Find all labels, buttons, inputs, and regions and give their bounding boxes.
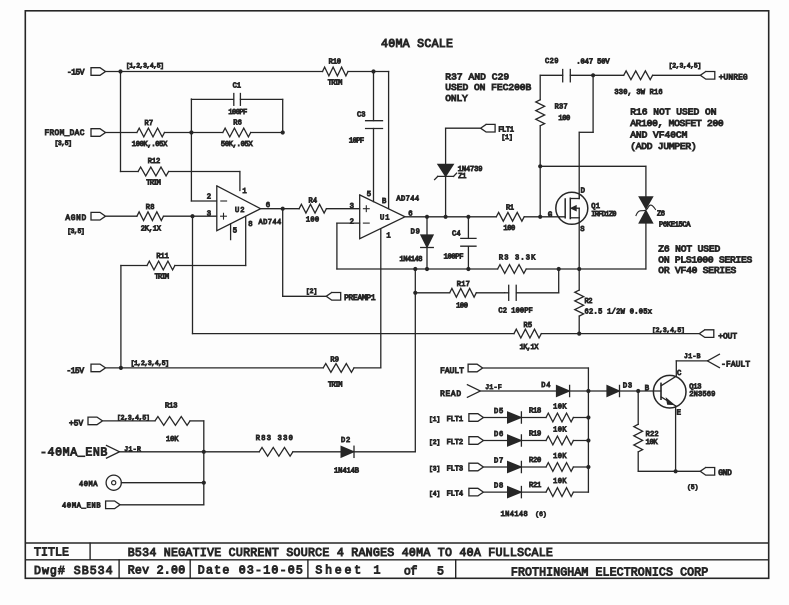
svg-text:S: S <box>580 226 584 234</box>
svg-text:8: 8 <box>248 221 252 229</box>
svg-text:100: 100 <box>558 115 570 123</box>
svg-text:10K: 10K <box>553 404 567 412</box>
svg-text:D9: D9 <box>411 229 420 237</box>
svg-text:R8: R8 <box>146 204 155 212</box>
svg-text:OR VF40 SERIES: OR VF40 SERIES <box>658 265 736 276</box>
svg-text:C2 100PF: C2 100PF <box>498 308 532 316</box>
svg-text:100: 100 <box>503 225 515 233</box>
svg-text:[2,3,4,5]: [2,3,4,5] <box>117 415 150 422</box>
svg-text:Z1: Z1 <box>458 173 466 181</box>
svg-text:FAULT: FAULT <box>440 368 464 376</box>
svg-text:AND VF40CM: AND VF40CM <box>630 130 687 141</box>
svg-text:Rev 2.00: Rev 2.00 <box>128 564 186 577</box>
svg-text:1N4148: 1N4148 <box>400 256 423 264</box>
svg-text:Dwg# SB534: Dwg# SB534 <box>34 565 113 578</box>
svg-text:R16 NOT USED ON: R16 NOT USED ON <box>630 106 716 117</box>
svg-text:6: 6 <box>266 202 270 210</box>
svg-text:D8: D8 <box>494 483 503 491</box>
svg-text:U2: U2 <box>235 207 245 215</box>
svg-text:FLT3: FLT3 <box>447 466 464 474</box>
svg-text:+5V: +5V <box>69 421 84 429</box>
svg-text:B: B <box>645 385 650 393</box>
svg-text:Z6 NOT USED: Z6 NOT USED <box>658 244 720 255</box>
svg-text:[3,5]: [3,5] <box>67 228 85 235</box>
svg-text:P6KE15CA: P6KE15CA <box>659 221 691 229</box>
svg-text:-15V: -15V <box>67 70 85 78</box>
svg-text:[3,5]: [3,5] <box>55 140 73 147</box>
svg-text:2K,1X: 2K,1X <box>141 226 162 234</box>
svg-text:FLT2: FLT2 <box>447 439 464 447</box>
svg-text:5: 5 <box>367 191 371 199</box>
svg-text:C3: C3 <box>357 112 365 120</box>
svg-text:R2: R2 <box>585 298 593 306</box>
svg-text:10K: 10K <box>553 478 567 486</box>
svg-text:READ: READ <box>440 391 461 399</box>
svg-text:R21: R21 <box>529 482 541 490</box>
svg-text:10PF: 10PF <box>349 137 364 145</box>
svg-text:J1-R: J1-R <box>124 446 141 453</box>
svg-text:TRIM: TRIM <box>155 274 170 282</box>
svg-text:R20: R20 <box>529 457 541 465</box>
svg-text:R11: R11 <box>156 253 168 261</box>
svg-text:1N4148: 1N4148 <box>501 511 528 519</box>
svg-text:Sheet 1: Sheet 1 <box>315 564 380 577</box>
svg-text:R7: R7 <box>145 120 154 128</box>
svg-text:100PF: 100PF <box>444 254 464 262</box>
svg-text:[1,2,3,4,5]: [1,2,3,4,5] <box>131 360 170 367</box>
svg-text:ON PLS1000 SERIES: ON PLS1000 SERIES <box>658 254 752 265</box>
svg-text:5: 5 <box>437 565 444 578</box>
svg-text:TRIM: TRIM <box>328 382 343 390</box>
svg-text:D7: D7 <box>494 458 503 466</box>
svg-text:R12: R12 <box>148 158 160 166</box>
svg-text:FROM_DAC: FROM_DAC <box>45 130 85 138</box>
svg-text:-40MA_ENB: -40MA_ENB <box>40 447 107 460</box>
svg-text:[4]: [4] <box>429 491 440 498</box>
svg-text:3: 3 <box>350 203 354 211</box>
svg-text:40MA: 40MA <box>79 481 98 489</box>
svg-text:[1]: [1] <box>429 416 440 423</box>
svg-text:B534 NEGATIVE CURRENT SOURCE: B534 NEGATIVE CURRENT SOURCE 4 RANGES 40… <box>128 547 553 560</box>
svg-text:R3 3.3K: R3 3.3K <box>499 255 536 263</box>
svg-text:TITLE: TITLE <box>34 547 69 560</box>
svg-text:40MA SCALE: 40MA SCALE <box>381 38 453 51</box>
svg-text:ONLY: ONLY <box>445 93 468 104</box>
svg-text:B: B <box>382 198 387 206</box>
svg-text:R37 AND C29: R37 AND C29 <box>445 71 509 82</box>
svg-text:TRIM: TRIM <box>328 80 343 88</box>
svg-text:Z6: Z6 <box>657 211 665 219</box>
svg-text:FLT1: FLT1 <box>447 416 464 424</box>
svg-text:(5): (5) <box>687 484 698 491</box>
svg-text:1K,1X: 1K,1X <box>520 344 540 352</box>
svg-text:R83 330: R83 330 <box>256 435 293 443</box>
svg-text:D5: D5 <box>494 408 503 416</box>
svg-text:100: 100 <box>306 217 319 225</box>
svg-text:3: 3 <box>207 211 211 219</box>
svg-text:2: 2 <box>350 219 354 227</box>
svg-text:R6: R6 <box>233 120 242 128</box>
svg-text:[2]: [2] <box>306 288 317 295</box>
svg-text:D3: D3 <box>623 383 632 391</box>
svg-text:J1-B: J1-B <box>684 353 701 360</box>
svg-text:-15V: -15V <box>67 368 85 376</box>
svg-text:R10: R10 <box>329 59 341 67</box>
svg-text:Date 03-10-05: Date 03-10-05 <box>198 564 303 577</box>
svg-text:-FAULT: -FAULT <box>721 362 750 370</box>
svg-text:10K: 10K <box>166 436 179 444</box>
svg-text:6: 6 <box>408 211 412 219</box>
svg-text:U1: U1 <box>380 215 390 223</box>
svg-text:62.5 1/2W 0.05x: 62.5 1/2W 0.05x <box>585 308 653 316</box>
svg-text:5: 5 <box>233 227 237 235</box>
svg-text:AD744: AD744 <box>396 196 419 204</box>
svg-text:10K: 10K <box>553 453 567 461</box>
svg-text:of: of <box>404 565 417 578</box>
svg-text:R13: R13 <box>165 402 177 410</box>
svg-text:C1: C1 <box>233 83 241 91</box>
svg-text:TRIM: TRIM <box>146 180 161 188</box>
svg-text:C: C <box>677 370 682 378</box>
svg-text:IRFD1Z0: IRFD1Z0 <box>591 211 616 219</box>
svg-text:R19: R19 <box>529 431 541 439</box>
svg-text:C4: C4 <box>452 230 461 238</box>
svg-text:10K: 10K <box>646 439 659 447</box>
svg-text:2N3569: 2N3569 <box>689 391 715 399</box>
svg-text:[1]: [1] <box>501 134 512 141</box>
svg-text:[2,3,4,5]: [2,3,4,5] <box>669 62 702 69</box>
svg-text:PREAMP1: PREAMP1 <box>344 295 376 303</box>
svg-text:E: E <box>677 409 681 417</box>
svg-text:GND: GND <box>718 470 732 478</box>
svg-text:+UNREG: +UNREG <box>719 74 748 82</box>
svg-text:R4: R4 <box>309 198 318 206</box>
svg-text:1: 1 <box>386 232 390 240</box>
svg-text:D2: D2 <box>341 437 350 445</box>
svg-text:.047 50V: .047 50V <box>576 59 610 67</box>
svg-text:AGND: AGND <box>65 215 86 223</box>
svg-text:D6: D6 <box>494 431 503 439</box>
svg-text:D4: D4 <box>541 382 550 390</box>
svg-text:1: 1 <box>242 188 246 196</box>
svg-text:[2,3,4,5]: [2,3,4,5] <box>652 327 685 334</box>
svg-text:100PF: 100PF <box>228 109 247 117</box>
svg-text:FROTHINGHAM ELECTRONICS CORP: FROTHINGHAM ELECTRONICS CORP <box>511 567 708 580</box>
svg-text:10K: 10K <box>553 427 567 435</box>
svg-text:2: 2 <box>207 193 211 201</box>
svg-text:+OUT: +OUT <box>718 334 737 342</box>
svg-text:1N414B: 1N414B <box>334 468 359 476</box>
svg-text:R17: R17 <box>457 281 470 289</box>
svg-text:J1-F: J1-F <box>485 384 502 391</box>
svg-text:R37: R37 <box>555 104 568 112</box>
svg-text:100K,.05X: 100K,.05X <box>132 141 168 149</box>
svg-text:R9: R9 <box>330 357 339 365</box>
svg-text:[2]: [2] <box>429 439 440 446</box>
svg-text:D: D <box>581 188 585 196</box>
svg-text:G: G <box>548 211 552 219</box>
svg-text:R1: R1 <box>506 205 514 213</box>
svg-text:R5: R5 <box>524 322 533 330</box>
svg-text:USED ON FEC200B: USED ON FEC200B <box>445 82 531 93</box>
svg-text:R22: R22 <box>646 431 659 439</box>
svg-text:330, 3W R16: 330, 3W R16 <box>614 89 662 97</box>
svg-text:(6): (6) <box>535 511 546 518</box>
svg-text:50K,.05X: 50K,.05X <box>221 141 254 149</box>
svg-text:AR100, MOSFET 200: AR100, MOSFET 200 <box>630 118 724 129</box>
svg-text:[1,2,3,4,5]: [1,2,3,4,5] <box>126 62 164 69</box>
svg-text:AD744: AD744 <box>259 219 282 227</box>
svg-text:R18: R18 <box>529 408 541 416</box>
svg-text:40MA_ENB: 40MA_ENB <box>62 503 101 511</box>
svg-text:100: 100 <box>456 302 468 310</box>
svg-text:FLT4: FLT4 <box>447 491 464 499</box>
svg-text:[3]: [3] <box>429 466 440 473</box>
svg-text:C29: C29 <box>545 58 559 66</box>
svg-text:(ADD JUMPER): (ADD JUMPER) <box>630 141 697 152</box>
